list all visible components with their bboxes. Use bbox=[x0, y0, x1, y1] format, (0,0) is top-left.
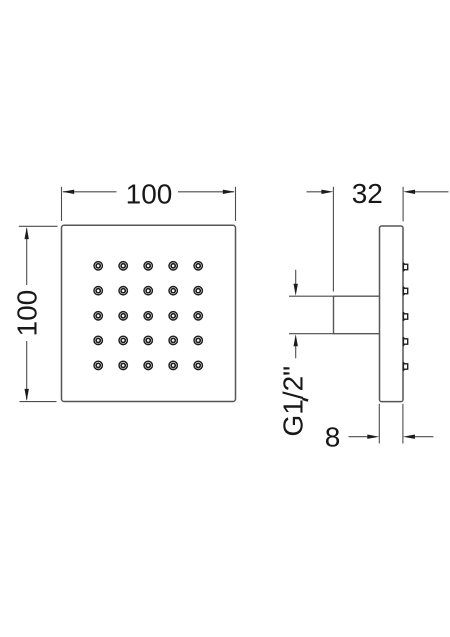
dimension thickness 8: extension line left bbox=[378, 404, 380, 444]
dimension G1/2: extension line bottom bbox=[289, 333, 334, 335]
dimension height 100: bottom arrowhead bbox=[25, 389, 29, 401]
dimension G1/2: lower arrowhead bbox=[294, 334, 298, 346]
dimension width 100: right arrowhead bbox=[223, 190, 235, 194]
svg-text:8: 8 bbox=[325, 421, 341, 452]
dimension G1/2: extension line top bbox=[289, 295, 334, 297]
dimension thickness 8: left tail line bbox=[349, 436, 369, 438]
dimension height 100: dimension line bottom segment bbox=[26, 341, 28, 400]
dimension G1/2: lower tail line bbox=[295, 345, 297, 359]
dimension thickness 8: right tail line bbox=[414, 436, 434, 438]
svg-text:100: 100 bbox=[12, 290, 43, 337]
dimension G1/2: slash descender tail bbox=[303, 399, 309, 401]
dimension depth 32: extension line right bbox=[402, 187, 404, 222]
dimension thickness 8: right arrowhead bbox=[403, 435, 415, 439]
nozzle jet row2 bbox=[94, 287, 202, 295]
svg-text:32: 32 bbox=[352, 178, 383, 209]
side view nozzle bump 5 bbox=[403, 362, 408, 371]
dimension G1/2: upper arrowhead bbox=[294, 284, 298, 296]
dimension height 100: dimension line top segment bbox=[26, 229, 28, 286]
dimension thickness 8: left arrowhead bbox=[367, 435, 379, 439]
nozzle jets 5x5 grid bbox=[94, 262, 202, 370]
svg-text:G1/2": G1/2" bbox=[277, 366, 308, 437]
side view inlet pipe outline bbox=[334, 296, 380, 334]
dimension G1/2: upper tail line bbox=[295, 270, 297, 285]
dimension width 100: extension line right bbox=[235, 187, 237, 221]
dimension height 100: top arrowhead bbox=[25, 227, 29, 239]
nozzle jet row5 bbox=[94, 361, 202, 369]
front view faceplate outline bbox=[62, 225, 236, 401]
side view nozzle bump 4 bbox=[403, 337, 408, 346]
side view plate outline bbox=[380, 226, 404, 402]
dimension height 100: extension line top bbox=[19, 225, 58, 227]
dimension depth 32: left tail line bbox=[307, 191, 324, 193]
dimension depth 32: right tail line bbox=[414, 191, 449, 193]
dimension depth 32: right arrowhead bbox=[403, 190, 415, 194]
dimension depth 32: extension line left bbox=[332, 187, 334, 292]
dimension height 100: extension line bottom bbox=[20, 401, 57, 403]
svg-text:100: 100 bbox=[126, 179, 173, 210]
nozzle jet row4 bbox=[94, 336, 202, 344]
side view nozzle bump 3 bbox=[403, 312, 408, 321]
side view nozzle bump 1 bbox=[403, 263, 408, 272]
dimension depth 32: left arrowhead bbox=[321, 190, 333, 194]
side view nozzle bump 2 bbox=[403, 287, 408, 296]
nozzle jet row3 bbox=[94, 312, 202, 320]
dimension thickness 8: extension line right bbox=[402, 404, 404, 444]
dimension width 100: extension line left bbox=[61, 187, 63, 221]
nozzle jet row1 bbox=[94, 262, 202, 270]
dimension width 100: left arrowhead bbox=[62, 190, 74, 194]
dimension width 100: dimension line right segment bbox=[178, 191, 234, 193]
dimension width 100: dimension line left segment bbox=[63, 191, 117, 193]
